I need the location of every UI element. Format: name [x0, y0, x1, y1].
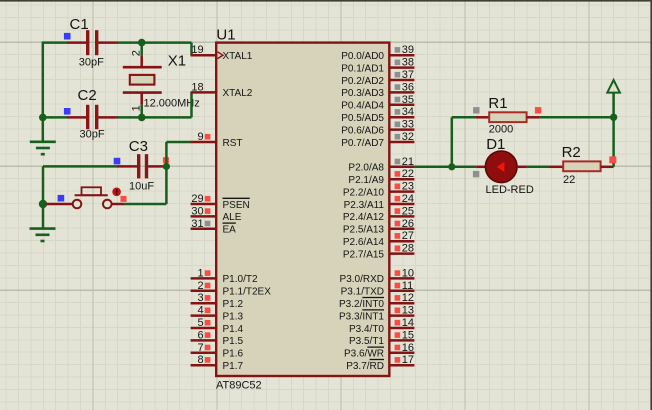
svg-text:P2.6/A14: P2.6/A14	[343, 237, 385, 248]
push button (reset)	[46, 187, 124, 208]
svg-text:2: 2	[197, 280, 203, 292]
wire up to R1 row	[451, 117, 454, 167]
svg-text:14: 14	[402, 317, 414, 329]
svg-text:30pF: 30pF	[80, 129, 105, 141]
wire junction to LED	[452, 166, 477, 169]
marker blue C2	[64, 108, 71, 115]
wire left vertical C1-to-C2 rail	[42, 42, 45, 118]
svg-text:RST: RST	[223, 138, 243, 149]
pin 21 P2.0/A8	[348, 156, 414, 174]
label C2	[78, 87, 97, 104]
node D: junction C3 / RST / button	[163, 163, 170, 170]
wire into R1	[452, 116, 476, 119]
svg-text:10: 10	[402, 267, 414, 279]
pin 5 P1.4	[191, 317, 244, 335]
pin 4 P1.3	[191, 305, 244, 323]
svg-text:P3.4/T0: P3.4/T0	[349, 324, 384, 335]
wire button branch vertical	[165, 166, 168, 204]
svg-text:8: 8	[197, 354, 203, 366]
pin 33 P0.6/AD6	[341, 119, 414, 137]
pin 16 P3.6/WR	[344, 342, 414, 360]
node G: junction power rail	[610, 114, 617, 121]
svg-text:P0.7/AD7: P0.7/AD7	[341, 138, 384, 149]
LED D1	[476, 151, 526, 183]
wire power rail down to R2	[612, 117, 615, 167]
svg-text:22: 22	[563, 174, 575, 186]
marker blue button-left	[58, 195, 65, 202]
node F: junction LED branch / R1 branch	[448, 163, 455, 170]
marker blue C1	[64, 33, 71, 40]
pin 37 P0.2/AD2	[341, 69, 414, 87]
capacitor C3	[117, 154, 164, 178]
svg-text:29: 29	[191, 193, 203, 205]
pin 12 P3.2/INT0	[339, 292, 414, 310]
svg-text:P2.5/A13: P2.5/A13	[343, 225, 385, 236]
pin 8 P1.7	[191, 354, 244, 372]
wire XTAL1 vertical into pin 19	[190, 43, 193, 56]
svg-text:P0.0/AD0: P0.0/AD0	[341, 51, 384, 62]
value 2000 (R1)	[489, 124, 513, 136]
wire ground drop (oscillator)	[42, 117, 45, 141]
pin 3 P1.2	[191, 292, 244, 310]
value LED-RED (D1)	[486, 184, 534, 196]
svg-text:P0.3/AD3: P0.3/AD3	[341, 88, 384, 99]
pin 2 P1.1/T2EX	[191, 280, 272, 298]
svg-text:26: 26	[402, 218, 414, 230]
wire R1 to power rail	[540, 116, 614, 119]
svg-text:10uF: 10uF	[129, 180, 154, 192]
label R2	[562, 144, 581, 161]
wire RST net: C3 row horizontal	[43, 165, 117, 168]
pin number 2 (X1)	[130, 50, 142, 56]
svg-text:P1.6: P1.6	[223, 349, 244, 360]
svg-text:35: 35	[402, 94, 414, 106]
svg-text:LED-RED: LED-RED	[486, 184, 534, 196]
wire button row horizontal	[124, 203, 166, 206]
pin 38 P0.1/AD1	[341, 57, 414, 75]
label R1	[488, 95, 507, 112]
svg-text:P0.2/AD2: P0.2/AD2	[341, 76, 384, 87]
pin 10 P3.0/RXD	[340, 267, 415, 285]
wire RST horizontal into pin 9	[166, 141, 191, 144]
pin 28 P2.7/A15	[343, 243, 415, 261]
svg-text:12: 12	[402, 292, 414, 304]
value AT89C52 (U1)	[216, 380, 262, 392]
wire P2.0 net to LED branch	[414, 166, 451, 169]
svg-text:P3.6/WR: P3.6/WR	[344, 349, 384, 360]
svg-text:25: 25	[402, 205, 414, 217]
label X1	[168, 52, 186, 69]
pin 27 P2.6/A14	[343, 230, 415, 248]
svg-text:P1.2: P1.2	[223, 299, 244, 310]
svg-text:P1.4: P1.4	[223, 324, 244, 335]
resistor R2	[550, 161, 614, 171]
svg-text:22: 22	[402, 168, 414, 180]
pin 34 P0.5/AD5	[341, 106, 414, 124]
value 22 (R2)	[563, 174, 575, 186]
svg-text:38: 38	[402, 57, 414, 69]
svg-text:P1.3: P1.3	[223, 311, 244, 322]
svg-text:31: 31	[191, 218, 203, 230]
value 30pF (C2)	[80, 129, 105, 141]
value 10uF (C3)	[129, 180, 154, 192]
marker red button-right	[121, 196, 127, 202]
svg-text:3: 3	[197, 292, 203, 304]
svg-text:9: 9	[197, 131, 203, 143]
svg-text:4: 4	[197, 305, 203, 317]
pin 14 P3.4/T0	[349, 317, 414, 335]
interactive actuator marker (button)	[112, 188, 121, 197]
marker red C3 node	[163, 157, 169, 163]
pin XTAL1 input arrow	[217, 52, 223, 59]
svg-text:AT89C52: AT89C52	[216, 380, 262, 392]
wire RST net: left vertical to button	[42, 166, 45, 204]
svg-text:21: 21	[402, 156, 414, 168]
svg-text:39: 39	[402, 44, 414, 56]
svg-text:C2: C2	[78, 87, 97, 104]
node B: junction X1 pin1 / C2 / XTAL2	[138, 114, 146, 122]
value 30pF (C1)	[79, 56, 104, 68]
marker red R2-right	[609, 156, 616, 163]
svg-text:P1.1/T2EX: P1.1/T2EX	[223, 287, 272, 298]
svg-text:P2.1/A9: P2.1/A9	[348, 175, 384, 186]
pin 23 P2.2/A10	[343, 181, 415, 199]
pin 11 P3.1/TXD	[341, 280, 415, 298]
microcontroller U1 body (AT89C52)	[216, 43, 389, 376]
pin 19 XTAL1	[191, 44, 253, 62]
wire XTAL2 net: C2 row horizontal	[42, 116, 192, 119]
svg-text:XTAL2: XTAL2	[223, 88, 253, 99]
pin 32 P0.7/AD7	[341, 131, 414, 149]
svg-text:P2.3/A11: P2.3/A11	[344, 200, 385, 211]
svg-text:ALE: ALE	[223, 212, 242, 223]
svg-text:1: 1	[197, 267, 203, 279]
marker red R1-right	[535, 107, 541, 113]
node E: junction button / ground	[39, 200, 47, 208]
pin 39 P0.0/AD0	[341, 44, 414, 62]
power terminal (VCC arrow)	[607, 80, 620, 93]
wire RST vertical up to pin 9 row	[165, 142, 168, 166]
label D1	[486, 136, 505, 153]
svg-text:30: 30	[191, 205, 203, 217]
svg-text:33: 33	[402, 119, 414, 131]
svg-text:D1: D1	[486, 136, 505, 153]
svg-text:P3.0/RXD: P3.0/RXD	[340, 274, 384, 285]
svg-text:5: 5	[197, 317, 203, 329]
svg-text:P3.7/RD: P3.7/RD	[346, 361, 384, 372]
ground (oscillator)	[30, 142, 56, 154]
svg-text:17: 17	[402, 354, 414, 366]
svg-text:34: 34	[402, 106, 414, 118]
svg-text:C1: C1	[70, 16, 89, 33]
svg-text:36: 36	[402, 81, 414, 93]
wire X1 pin1 drop	[140, 105, 143, 118]
svg-text:R1: R1	[488, 95, 507, 112]
svg-text:28: 28	[402, 243, 414, 255]
pin 22 P2.1/A9	[348, 168, 414, 186]
svg-text:P2.4/A12: P2.4/A12	[343, 212, 385, 223]
svg-text:23: 23	[402, 181, 414, 193]
svg-text:P1.7: P1.7	[223, 361, 244, 372]
marker gray R1-left	[473, 107, 479, 113]
svg-text:PSEN: PSEN	[223, 200, 250, 211]
svg-text:19: 19	[191, 44, 203, 56]
svg-text:2000: 2000	[489, 124, 513, 136]
pin 29 PSEN	[191, 193, 250, 211]
svg-text:P2.7/A15: P2.7/A15	[343, 249, 385, 260]
pin 6 P1.5	[191, 329, 244, 347]
crystal X1	[123, 56, 162, 105]
marker blue C3	[114, 158, 121, 165]
svg-text:P0.4/AD4: P0.4/AD4	[341, 101, 384, 112]
svg-text:18: 18	[191, 81, 203, 93]
svg-text:P1.0/T2: P1.0/T2	[223, 274, 258, 285]
wire XTAL2 vertical into pin 18	[190, 92, 193, 117]
pin 17 P3.7/RD	[346, 354, 414, 372]
svg-text:R2: R2	[562, 144, 581, 161]
label C3	[129, 138, 148, 155]
svg-text:P2.2/A10: P2.2/A10	[343, 187, 385, 198]
svg-text:32: 32	[402, 131, 414, 143]
pin 26 P2.5/A13	[343, 218, 415, 236]
svg-text:P3.5/T1: P3.5/T1	[349, 336, 384, 347]
pin 35 P0.4/AD4	[341, 94, 414, 112]
capacitor C1	[67, 30, 118, 55]
svg-text:16: 16	[402, 342, 414, 354]
svg-text:EA: EA	[223, 225, 237, 236]
pin 30 ALE	[191, 205, 242, 223]
svg-text:X1: X1	[168, 52, 186, 69]
svg-text:37: 37	[402, 69, 414, 81]
svg-text:11: 11	[402, 280, 413, 292]
capacitor C2	[67, 105, 118, 129]
svg-text:XTAL1: XTAL1	[223, 51, 253, 62]
svg-text:7: 7	[197, 342, 203, 354]
pin 1 P1.0/T2	[191, 267, 258, 285]
svg-text:13: 13	[402, 305, 414, 317]
node A: junction X1 pin2 / C1 / XTAL1	[138, 39, 146, 47]
svg-text:P3.3/INT1: P3.3/INT1	[339, 311, 384, 322]
svg-text:15: 15	[402, 329, 414, 341]
svg-text:C3: C3	[129, 138, 148, 155]
marker gray D1-left	[473, 171, 479, 177]
pin 13 P3.3/INT1	[339, 305, 414, 323]
svg-text:P0.5/AD5: P0.5/AD5	[341, 113, 384, 124]
node C: junction C1/C2 rail to ground	[39, 114, 47, 122]
resistor R1	[476, 112, 540, 122]
svg-text:30pF: 30pF	[79, 56, 104, 68]
svg-text:24: 24	[402, 193, 414, 205]
pin 25 P2.4/A12	[343, 205, 415, 223]
wire X1 pin2 drop	[140, 43, 143, 56]
pin 9 RST	[191, 131, 243, 149]
pin 31 EA	[191, 218, 237, 236]
pin 7 P1.6	[191, 342, 244, 360]
svg-text:2: 2	[130, 50, 142, 56]
pin number 1 (X1)	[130, 105, 142, 111]
svg-text:P1.5: P1.5	[223, 336, 244, 347]
pin 36 P0.3/AD3	[341, 81, 414, 99]
svg-text:P2.0/A8: P2.0/A8	[348, 163, 384, 174]
svg-text:P0.1/AD1: P0.1/AD1	[341, 63, 384, 74]
label U1	[216, 26, 235, 43]
svg-text:U1: U1	[216, 26, 235, 43]
ground (button)	[30, 229, 56, 241]
pin 18 XTAL2	[191, 81, 253, 99]
svg-text:P0.6/AD6: P0.6/AD6	[341, 125, 384, 136]
svg-text:27: 27	[402, 230, 414, 242]
wire LED to R2	[527, 166, 550, 169]
svg-text:P3.2/INT0: P3.2/INT0	[339, 299, 384, 310]
svg-text:P3.1/TXD: P3.1/TXD	[341, 287, 384, 298]
wire power rail up	[612, 93, 615, 118]
value 12.000MHz (X1)	[144, 97, 200, 109]
pin 24 P2.3/A11	[344, 193, 415, 211]
label C1	[70, 16, 89, 33]
wire XTAL1 net: C1 row horizontal	[42, 41, 192, 44]
svg-text:6: 6	[197, 329, 203, 341]
wire ground drop (button)	[42, 204, 45, 229]
pin 15 P3.5/T1	[349, 329, 414, 347]
